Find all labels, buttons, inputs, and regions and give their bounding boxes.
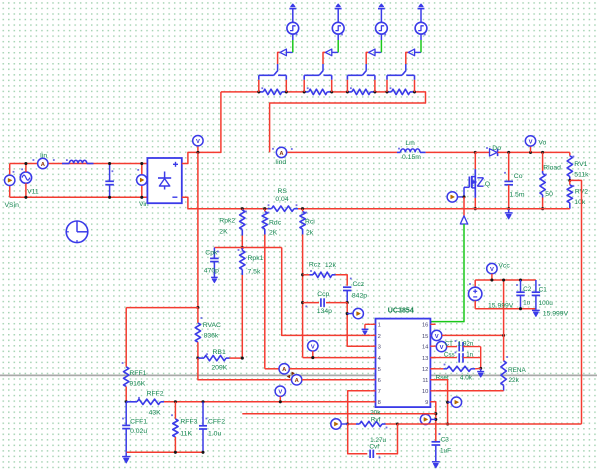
wire pin9 ref (430, 402, 435, 442)
label Lm (405, 140, 415, 147)
junction vrms probe (279, 400, 282, 403)
svg-text:C2: C2 (523, 286, 532, 293)
label bias voltage 2 (543, 310, 569, 317)
label RFF1 (129, 370, 146, 377)
svg-text:V: V (490, 267, 494, 273)
junction Rload top (541, 151, 544, 154)
junction vsense probe (446, 401, 449, 404)
junction Rdc top (263, 207, 266, 210)
label Rdc value (269, 230, 278, 237)
capacitor Ccp (303, 298, 348, 307)
junction R1 left (257, 90, 260, 93)
label Cvf (369, 444, 379, 451)
junction vcc riser top (502, 278, 505, 281)
label CFF2 (208, 418, 225, 425)
label RV1 value (574, 172, 589, 179)
svg-text:Vcc: Vcc (498, 263, 510, 270)
switch S2 (304, 64, 332, 92)
svg-text:Ccp: Ccp (317, 291, 329, 298)
capacitor Co (504, 152, 513, 208)
junction Rpk2 top (241, 207, 244, 210)
ammeter Iind (272, 147, 293, 157)
wire vcc top rail (475, 279, 536, 281)
buffer driver 3 (369, 49, 382, 56)
label Rset (436, 375, 449, 382)
label CT (445, 340, 453, 347)
probe vaout (331, 419, 348, 429)
power arrow 1 (289, 4, 296, 22)
svg-text:RFF1: RFF1 (129, 370, 146, 377)
svg-text:Ccz: Ccz (353, 281, 365, 288)
svg-text:1: 1 (378, 323, 381, 329)
source V pulse 3 (376, 22, 388, 35)
label RVAC (203, 322, 221, 329)
ammeter iac (287, 375, 302, 385)
ground timing (477, 368, 484, 377)
wire boost rail segments (221, 92, 426, 152)
label RFF2 (147, 390, 164, 397)
wire rail to Lm (288, 151, 398, 153)
svg-text:1u: 1u (523, 299, 531, 306)
junction node A (196, 306, 199, 309)
wire pin15 to vcc (442, 334, 504, 336)
wire CAOUT to pin3 (347, 303, 370, 347)
svg-text:UC3854: UC3854 (388, 306, 414, 314)
label C2 value (523, 299, 531, 306)
source Vdc bias (469, 280, 482, 309)
label CT value (458, 340, 474, 347)
wire ref horizontal (242, 413, 435, 415)
probe Vin (137, 164, 147, 198)
label Rvf value (370, 409, 381, 416)
junction RB1 right (241, 357, 244, 360)
label RV2 (575, 189, 588, 196)
clock symbol (66, 221, 88, 243)
junction Co top (507, 151, 510, 154)
junction R4 right (413, 90, 416, 93)
label Q1 (485, 181, 490, 188)
ammeter Iin (33, 158, 55, 168)
wire gate drive green (431, 224, 464, 324)
junction CFF2 top (201, 400, 204, 403)
capacitor Cvf (348, 424, 398, 458)
wire IAC down (198, 358, 292, 380)
svg-text:RV1: RV1 (574, 161, 587, 168)
label Rpk1 (248, 255, 264, 262)
svg-text:CT: CT (445, 340, 453, 347)
wire ISENSE to pin4 (303, 357, 371, 359)
svg-text:Css: Css (444, 351, 455, 358)
svg-text:0.04: 0.04 (275, 196, 288, 203)
svg-text:Iin: Iin (40, 152, 47, 159)
svg-text:43K: 43K (149, 410, 162, 417)
source V11 (20, 164, 31, 198)
junction Vin top (140, 162, 143, 165)
ground output (505, 209, 513, 219)
junction Rcz tap (301, 273, 304, 276)
svg-text:V: V (278, 390, 282, 396)
wire IAC to pin6 (302, 379, 370, 381)
power arrow 4 (418, 4, 425, 22)
capacitor Cfilt (105, 164, 114, 198)
capacitor CFF1 (122, 402, 130, 453)
resistor Rset (430, 364, 480, 372)
wire Rpk tap horizontal (214, 247, 281, 249)
junction R2 left (303, 90, 306, 93)
wire MULTOUT to pin5 (289, 368, 370, 370)
op-amp U1 UC3854 body (376, 319, 431, 408)
label Rci value (306, 230, 314, 237)
wire gate down (463, 197, 465, 216)
svg-text:CFF1: CFF1 (130, 418, 147, 425)
label Vcc (498, 263, 510, 270)
svg-text:2k: 2k (306, 230, 314, 237)
wire PKLMT to pin2 (282, 248, 371, 336)
probe V vrms (275, 386, 285, 402)
label Rpk2 value (219, 229, 228, 236)
resistor RS (268, 204, 299, 211)
capacitor CFF2 (199, 402, 207, 453)
wire VSENSE feedback (570, 180, 582, 424)
label Ccp value (317, 308, 332, 315)
resistor Rload (540, 152, 547, 208)
svg-text:9: 9 (425, 400, 428, 406)
capacitor C2 (516, 280, 525, 309)
label Iin (40, 152, 47, 159)
label C3 (441, 437, 450, 444)
power arrow 2 (335, 4, 342, 22)
wire pin11 vsense (430, 380, 447, 424)
ground RFF (122, 452, 130, 463)
resistor Rci (300, 209, 307, 358)
source V pulse 4 (415, 22, 427, 35)
wire Rcz to Ccz (336, 275, 348, 286)
gate net arrow marker (460, 216, 467, 224)
svg-text:C1: C1 (539, 286, 548, 293)
svg-text:842p: 842p (352, 293, 367, 300)
svg-text:Co: Co (514, 173, 523, 180)
wire vcc bottom rail (475, 308, 536, 310)
resistor RVAC (195, 308, 202, 359)
capacitor C1 (532, 280, 541, 310)
buffer driver 4 (408, 49, 421, 56)
junction R2 right (330, 90, 333, 93)
svg-text:VSin: VSin (5, 202, 20, 209)
svg-text:15.999V: 15.999V (543, 310, 569, 317)
inductor Lm (397, 148, 426, 153)
gray separator line (0, 374, 597, 376)
probe V isense (308, 341, 318, 358)
source V pulse 2 (332, 22, 344, 35)
inductor Lin (62, 159, 94, 163)
svg-text:511k: 511k (574, 172, 589, 179)
label Ccz (353, 281, 365, 288)
svg-text:Rload: Rload (543, 165, 561, 172)
label C1 (539, 286, 548, 293)
svg-text:V: V (435, 334, 439, 340)
label CFF2 value (208, 431, 221, 438)
wire input bottom rail (10, 186, 148, 198)
label Css (444, 351, 455, 358)
svg-text:5: 5 (378, 367, 381, 373)
label RV1 (574, 161, 587, 168)
label RFF3 (180, 418, 197, 425)
junction Co bottom (507, 207, 510, 210)
svg-text:Q: Q (485, 181, 490, 188)
label RS (278, 188, 288, 195)
label RFF3 value (180, 431, 192, 438)
label Vin (139, 201, 149, 208)
svg-text:12k: 12k (325, 262, 337, 269)
junction Vo probe (529, 151, 532, 154)
label Cpk (205, 250, 218, 257)
probe V vcc pin15 (432, 330, 442, 340)
label Rci (305, 219, 315, 226)
svg-text:15: 15 (422, 334, 428, 340)
label Cvf value (370, 437, 386, 444)
junction vcc probe (490, 278, 493, 281)
resistor R3 (347, 87, 375, 94)
wire switch control 4 (406, 52, 408, 64)
svg-text:22k: 22k (509, 377, 520, 384)
svg-text:V: V (529, 139, 533, 145)
wire switch control 1 (278, 52, 280, 64)
svg-text:15.999V: 15.999V (488, 303, 514, 310)
svg-text:20k: 20k (370, 409, 381, 416)
resistor Rcz (303, 270, 336, 277)
svg-text:RFF2: RFF2 (147, 390, 164, 397)
label Rload (543, 165, 561, 172)
svg-text:V: V (311, 344, 315, 350)
junction R1 right (285, 90, 288, 93)
svg-text:50: 50 (545, 191, 553, 198)
label CFF1 (130, 418, 147, 425)
label V11 (27, 188, 39, 195)
ground C3 (432, 462, 440, 468)
svg-text:0.02u: 0.02u (130, 428, 147, 435)
wire bridge minus elbow (182, 197, 268, 208)
svg-text:13: 13 (422, 356, 428, 362)
wire vsense join (398, 423, 582, 425)
junction source node (474, 207, 477, 210)
probe ref (420, 414, 436, 424)
capacitor Ccz (343, 278, 352, 303)
junction C2 top (519, 278, 522, 281)
svg-text:1n: 1n (466, 351, 473, 358)
label Co (514, 173, 523, 180)
label RB1 value (211, 365, 227, 372)
wire rectified down (197, 152, 199, 307)
svg-text:16: 16 (422, 323, 428, 329)
resistor Rvf (348, 421, 398, 428)
junction vsense comp (446, 422, 449, 425)
source V pulse 1 (287, 22, 299, 35)
junction C2 bottom (519, 307, 522, 310)
label Css value (466, 351, 473, 358)
label Rpk2 (219, 217, 235, 224)
wire RENA to pin10 (436, 390, 504, 392)
junction rectified node (196, 151, 199, 154)
resistor RFF3 (171, 402, 178, 453)
probe Vo (525, 136, 535, 153)
wire switch control 3 (366, 52, 368, 64)
label C2 (523, 286, 532, 293)
capacitor C3 (432, 433, 441, 462)
junction vaout (346, 422, 349, 425)
svg-text:2: 2 (378, 334, 381, 340)
wire node A to RFF (126, 307, 198, 309)
label RB1 (213, 349, 226, 356)
junction drain node (474, 151, 477, 154)
svg-text:916K: 916K (129, 381, 145, 388)
diode Do (475, 147, 530, 156)
svg-text:Rpk2: Rpk2 (219, 217, 235, 224)
switch S4 (387, 64, 415, 92)
wire control net 1 green (292, 34, 294, 52)
svg-text:7: 7 (378, 389, 381, 395)
label Lm value (402, 154, 421, 161)
svg-text:Rcz: Rcz (309, 262, 321, 269)
label C1 value (539, 300, 554, 307)
junction Vin bottom (140, 196, 143, 199)
label bias voltage 1 (488, 303, 514, 310)
resistor RV1 (567, 152, 574, 180)
label Ccz value (352, 293, 367, 300)
resistor RENA (501, 335, 508, 390)
wire vcc riser (503, 280, 505, 335)
svg-text:1.92n: 1.92n (458, 340, 474, 347)
resistor R2 (304, 87, 332, 94)
wire ct css gnd (480, 347, 482, 369)
svg-text:RFF3: RFF3 (180, 418, 197, 425)
wire input top rail (10, 164, 148, 176)
label CFF1 value (130, 428, 147, 435)
bridge rectifier U2 (147, 158, 181, 203)
power arrow 3 (378, 4, 385, 22)
label Rpk1 value (248, 269, 261, 276)
svg-text:Do: Do (492, 145, 501, 152)
svg-text:11K: 11K (180, 431, 192, 438)
capacitor Css (430, 352, 480, 363)
wire control net 3 green (380, 34, 382, 52)
junction CFF2 bottom (201, 451, 204, 454)
svg-text:2K: 2K (269, 230, 278, 237)
junction RFF2 left (125, 400, 128, 403)
svg-text:10k: 10k (574, 199, 586, 206)
junction RFF3 top (174, 400, 177, 403)
junction input src top (24, 162, 27, 165)
label UC3854 (388, 306, 414, 314)
resistor RV2 (567, 180, 574, 208)
svg-text:6: 6 (378, 378, 381, 384)
ground pin1 (362, 324, 371, 334)
svg-text:Cvf: Cvf (369, 444, 379, 451)
switch S3 (347, 64, 375, 92)
label RS value (275, 196, 288, 203)
ground Cpk (211, 277, 218, 282)
svg-text:8: 8 (378, 400, 381, 406)
capacitor CT (447, 340, 481, 351)
svg-text:CFF2: CFF2 (208, 418, 225, 425)
junction RFF3 bottom (174, 451, 177, 454)
svg-text:Iind: Iind (275, 159, 286, 166)
resistor R1 (259, 87, 287, 94)
resistor Rpk2 (240, 209, 247, 248)
junction RB1 left (196, 357, 199, 360)
svg-text:10: 10 (422, 389, 428, 395)
junction vcc riser (502, 334, 505, 337)
svg-text:RENA: RENA (508, 367, 526, 374)
label RFF1 value (129, 381, 145, 388)
svg-text:V: V (440, 345, 444, 351)
svg-text:3: 3 (378, 345, 381, 351)
resistor RB1 (198, 353, 242, 361)
label RFF2 value (149, 410, 162, 417)
label RENA value (509, 377, 520, 384)
wire switch control 2 (323, 52, 325, 64)
probe caout (347, 308, 363, 318)
svg-text:100u: 100u (539, 300, 554, 307)
wire RFF bottom rail (126, 451, 203, 453)
junction R3 left (346, 90, 349, 93)
label VSin (5, 202, 20, 209)
svg-text:12: 12 (422, 367, 428, 373)
switch S1 (259, 64, 287, 92)
svg-text:RB1: RB1 (213, 349, 226, 356)
resistor RFF1 (122, 308, 129, 402)
probe vsense (448, 397, 462, 407)
junction Rpk tap (241, 246, 244, 249)
svg-text:134p: 134p (317, 308, 332, 315)
junction RV divider (568, 179, 571, 182)
junction Rvf right (396, 422, 399, 425)
label Rset value (460, 375, 473, 382)
buffer driver 2 (325, 49, 338, 56)
wire control net 2 green (337, 34, 339, 52)
probe gate (447, 192, 464, 202)
capacitor Cpk (210, 248, 219, 278)
svg-text:Rpk1: Rpk1 (248, 255, 264, 262)
svg-text:4.0k: 4.0k (460, 375, 473, 382)
svg-text:1.5m: 1.5m (509, 191, 524, 198)
wire control net 4 green (420, 34, 422, 52)
junction Rci top (301, 207, 304, 210)
svg-text:V11: V11 (27, 188, 39, 195)
junction R4 left (385, 90, 388, 93)
svg-text:2K: 2K (219, 229, 228, 236)
label Iind (275, 159, 286, 166)
ground C1 (532, 310, 540, 316)
wire Rdc to probe (265, 368, 279, 370)
junction caout probe (346, 312, 349, 315)
svg-text:470p: 470p (204, 267, 219, 274)
junction Rload bottom (541, 207, 544, 210)
label RV2 value (574, 199, 586, 206)
probe V rectified (193, 136, 203, 153)
junction ref probe (434, 418, 437, 421)
wire Vo node (531, 151, 570, 153)
svg-text:Lm: Lm (405, 140, 415, 147)
label Rcz (309, 262, 321, 269)
svg-text:RVAC: RVAC (203, 322, 221, 329)
label Rload value (545, 191, 553, 198)
probe VSin (5, 171, 15, 186)
label C3 value (440, 448, 451, 455)
label Rcz value (325, 262, 337, 269)
junction gate node (462, 195, 465, 198)
svg-text:Rdc: Rdc (269, 220, 282, 227)
svg-text:Vo: Vo (538, 139, 546, 146)
